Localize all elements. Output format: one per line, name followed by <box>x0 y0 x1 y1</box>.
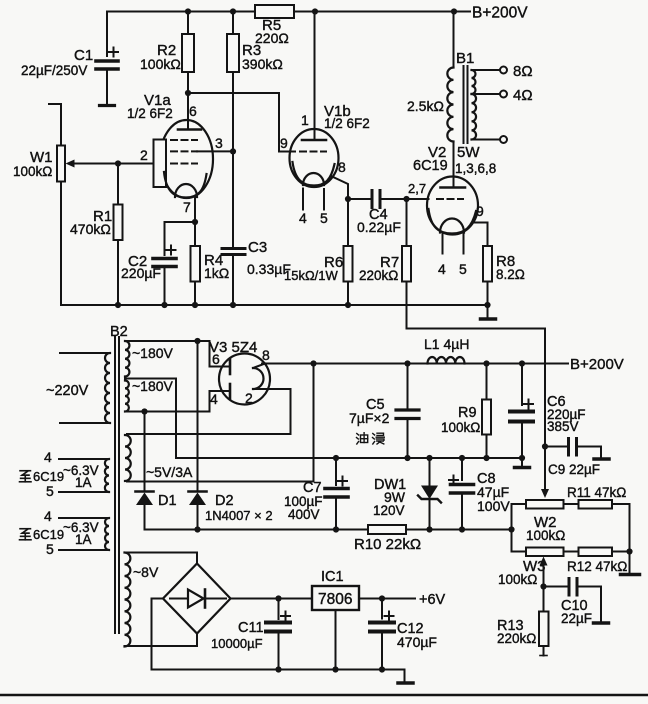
svg-text:7806: 7806 <box>318 591 352 608</box>
tube V2 envelope <box>427 177 478 235</box>
wire V1b cathode pin 8 lead <box>331 176 348 199</box>
label 5V winding <box>146 464 193 480</box>
svg-text:V3 5Z4: V3 5Z4 <box>209 339 257 356</box>
svg-text:15kΩ/1W: 15kΩ/1W <box>284 268 339 283</box>
svg-text:~180V: ~180V <box>132 378 174 394</box>
label 4-ohm <box>513 87 533 104</box>
transformer B2 HV winding 1 <box>125 341 129 376</box>
label 8-ohm <box>513 63 533 80</box>
svg-text:5: 5 <box>320 210 328 226</box>
node junction C4/R7/V2-grid <box>403 196 409 202</box>
capacitor C5 <box>396 364 419 459</box>
node junction C5/gnd-rail <box>404 455 410 461</box>
label zhi-6C19 (heater A) <box>20 469 65 484</box>
node junction C7/bias-rail <box>333 526 339 532</box>
node junction IC1-out/C12 <box>379 595 385 601</box>
wire HV center tap to ground rail <box>125 379 176 459</box>
node junction riser/B+ line <box>310 360 316 366</box>
svg-text:~8V: ~8V <box>133 564 159 580</box>
ground supply rail <box>515 458 530 468</box>
label R12 value <box>567 559 627 574</box>
svg-text:~5V/3A: ~5V/3A <box>146 464 193 480</box>
label R7 value <box>359 254 399 283</box>
label R9 value <box>441 405 480 435</box>
node junction C8/bias-rail <box>459 526 465 532</box>
label C2 value <box>121 253 161 281</box>
tube V1a envelope <box>160 120 213 198</box>
resistor R4 <box>191 222 201 305</box>
node junction R8/rail <box>484 302 490 308</box>
wire B+ to B1 primary <box>453 12 455 68</box>
inductor L1 <box>428 357 465 364</box>
wire HV top to V3 pin6 and D2 <box>125 341 230 367</box>
node junction IC1-gnd/0V <box>332 666 338 672</box>
label R10 value <box>354 536 421 553</box>
potentiometer W1 <box>49 104 65 305</box>
svg-text:4: 4 <box>44 508 52 524</box>
wire 4-ohm tap <box>472 91 508 98</box>
svg-text:C3: C3 <box>248 239 267 256</box>
svg-text:R12 47kΩ: R12 47kΩ <box>567 559 627 574</box>
label R13 value <box>497 618 536 646</box>
label C5 value <box>349 397 390 426</box>
svg-text:1: 1 <box>301 112 309 128</box>
svg-text:R9: R9 <box>458 405 477 421</box>
svg-text:220µF: 220µF <box>121 265 161 281</box>
node junction R11/R12 <box>626 548 632 554</box>
label D1 <box>158 493 177 509</box>
wire heater B pin 5 <box>59 549 109 551</box>
svg-text:8.2Ω: 8.2Ω <box>496 267 525 282</box>
wire 8V bottom to bridge <box>125 634 198 647</box>
svg-text:1/2 6F2: 1/2 6F2 <box>324 116 370 131</box>
svg-text:470µF: 470µF <box>397 634 437 650</box>
label pins 2,7 (V2) <box>408 181 426 196</box>
wire bottom 0V rail <box>152 669 405 671</box>
svg-text:D1: D1 <box>158 493 177 509</box>
resistor R2 <box>182 12 194 94</box>
capacitor C12 <box>370 599 394 670</box>
label W1 value <box>13 149 53 179</box>
wire V2 heater pin 5 <box>463 234 465 254</box>
node junction C11/0V <box>275 666 281 672</box>
capacitor C9 <box>545 439 601 456</box>
node junction C6/B+ <box>519 360 525 366</box>
ground bottom supply <box>398 670 413 684</box>
label youjin (oil immersed C5) <box>357 433 385 444</box>
node junction wiper/C10/R13 <box>540 583 546 589</box>
ground C10 <box>594 587 609 624</box>
label heater B value <box>63 520 99 547</box>
svg-text:470kΩ: 470kΩ <box>70 221 111 237</box>
label B1 power <box>457 144 480 161</box>
wire bridge plus to IC1 <box>231 598 313 600</box>
ground C9 <box>594 447 609 460</box>
capacitor C6 <box>510 364 533 459</box>
svg-text:2,7: 2,7 <box>408 181 426 196</box>
transformer B2 heater winding A <box>105 459 109 492</box>
potentiometer W2 <box>526 500 564 509</box>
resistor R10 <box>368 525 406 534</box>
wire IC1 output <box>359 598 415 600</box>
wire V3 pin 2 to 5V winding <box>127 389 291 434</box>
resistor R13 <box>539 587 549 656</box>
wire 8V top to bridge <box>125 553 198 564</box>
label +6V output <box>419 592 446 608</box>
label C8 value <box>477 471 510 514</box>
resistor R6 <box>344 199 353 305</box>
svg-text:6: 6 <box>189 103 197 119</box>
label pin 3 <box>215 135 223 151</box>
label pin 4 (heater A) <box>44 449 52 465</box>
transformer B2 primary 220V <box>105 353 110 423</box>
border bottom edge <box>0 694 648 697</box>
transformer B2 core <box>115 337 119 633</box>
tube V3 plate 1 <box>229 360 232 375</box>
svg-text:5: 5 <box>46 541 54 557</box>
ground top-section <box>481 305 496 319</box>
label pin 6 (V3) <box>212 351 220 367</box>
label R11 value <box>567 485 626 500</box>
svg-text:1/2 6F2: 1/2 6F2 <box>127 106 173 121</box>
diode D2 <box>189 341 207 530</box>
node junction C3/rail <box>230 302 236 308</box>
svg-text:B+200V: B+200V <box>570 356 624 373</box>
wire HV bottom to V3 pin4 and D1 <box>125 391 230 412</box>
transformer B2 heater winding B <box>105 518 109 550</box>
wire W3 left <box>512 551 527 553</box>
svg-text:0.22µF: 0.22µF <box>357 219 401 235</box>
zener diode DW1 <box>418 458 441 530</box>
node junction C7/gnd-rail <box>333 455 339 461</box>
label C4 value <box>357 207 401 235</box>
resistor R5 <box>255 5 294 18</box>
label C7 value <box>284 480 323 522</box>
wire V1a cathode lead pin 7 <box>194 198 196 223</box>
label R6 value <box>284 254 343 283</box>
transformer B1 core <box>464 66 468 143</box>
tube V1b plate <box>302 12 326 141</box>
tube V1a plate <box>178 93 201 130</box>
wire V3 pin 8 to B+ line <box>253 364 568 369</box>
tube V1b envelope <box>290 129 339 187</box>
tube V3 envelope <box>219 354 270 405</box>
label B1 primary value <box>407 98 444 114</box>
label R2 value <box>140 42 181 72</box>
wire V2 grid <box>407 198 429 200</box>
svg-text:8: 8 <box>338 159 346 175</box>
resistor R11 <box>579 500 613 509</box>
label pin 6 <box>189 103 197 119</box>
svg-text:22µF/250V: 22µF/250V <box>21 63 87 78</box>
node junction DW1/bias-rail <box>426 526 432 532</box>
svg-text:5: 5 <box>46 483 54 499</box>
node junction R4/rail <box>192 302 198 308</box>
svg-text:100kΩ: 100kΩ <box>441 420 480 435</box>
resistor R7 <box>402 199 411 329</box>
svg-text:400V: 400V <box>288 507 320 522</box>
label pin 4 (V2) <box>438 261 446 277</box>
wire R7 to bias network <box>407 329 546 447</box>
label B2 <box>110 324 128 340</box>
node junction R9/B+ <box>483 360 489 366</box>
node junction V1b-plate/top-rail <box>312 8 318 14</box>
label DW1 value <box>373 477 406 518</box>
node junction C5/B+ <box>404 360 410 366</box>
wire heater A pin 4 <box>59 458 109 460</box>
svg-text:8Ω: 8Ω <box>513 63 533 80</box>
svg-text:~220V: ~220V <box>46 383 89 399</box>
capacitor C2 <box>153 222 176 305</box>
label 220V <box>46 383 89 399</box>
tube V2 plate <box>441 142 466 188</box>
wire top-section ground rail <box>61 304 488 306</box>
label V1b <box>324 103 370 131</box>
node junction HVtop/D2 <box>194 338 200 344</box>
tube V1a grid side-contact box <box>154 140 167 188</box>
svg-text:L1 4µH: L1 4µH <box>424 336 469 352</box>
svg-text:1N4007 × 2: 1N4007 × 2 <box>205 508 273 523</box>
label 8V winding <box>133 564 159 580</box>
svg-text:100kΩ: 100kΩ <box>13 164 52 179</box>
diode D1 <box>136 412 154 530</box>
wire bridge minus to 0V rail <box>152 599 164 670</box>
transformer B2 5V winding <box>125 435 131 481</box>
svg-text:4: 4 <box>44 449 52 465</box>
label pin 9 (V1b) <box>280 135 288 151</box>
svg-text:D2: D2 <box>215 493 234 509</box>
svg-text:1A: 1A <box>75 475 92 490</box>
svg-text:6C19: 6C19 <box>33 527 64 542</box>
wire R12 right <box>612 551 630 553</box>
wire common tap <box>472 136 508 143</box>
label pin 5 (V1b) <box>320 210 328 226</box>
label C3 value <box>247 239 291 277</box>
svg-text:120V: 120V <box>373 503 405 518</box>
label C6 value <box>547 394 586 434</box>
svg-text:R11 47kΩ: R11 47kΩ <box>567 485 626 500</box>
node junction pin8/C4/R6 <box>345 196 351 202</box>
label 180V top <box>132 345 174 361</box>
wire W3 wiper <box>540 557 548 587</box>
node junction C2/rail <box>161 302 167 308</box>
label R5 value <box>255 17 289 46</box>
label 180V bottom <box>132 378 174 394</box>
wire grid V1a <box>118 163 154 165</box>
label C1 <box>21 47 93 78</box>
capacitor C3 <box>222 151 245 305</box>
node junction R1/rail <box>115 302 121 308</box>
node junction R9/gnd-rail <box>483 455 489 461</box>
wire V2 cathode pin 9 lead <box>472 223 488 247</box>
tube V1b cathode <box>293 162 335 186</box>
svg-text:2: 2 <box>140 147 148 163</box>
regulator IC1 <box>312 586 359 610</box>
wire pin 3 (screen grid out) <box>197 150 233 152</box>
transformer B1 primary <box>447 68 453 142</box>
svg-text:10000µF: 10000µF <box>211 636 263 651</box>
svg-text:7: 7 <box>183 199 191 215</box>
svg-text:9: 9 <box>476 203 484 219</box>
resistor R12 <box>579 548 613 557</box>
label V2 <box>413 144 448 174</box>
wire W2 to R11 <box>564 503 579 505</box>
label pin 5 (heater A) <box>46 483 54 499</box>
wire W3 to R12 <box>564 551 579 553</box>
resistor R1 <box>114 164 123 306</box>
svg-text:4: 4 <box>210 391 218 407</box>
ground bias divider <box>621 573 640 577</box>
node junction bias-rail/left-vertical <box>508 526 514 532</box>
label pin 8 (V3) <box>262 347 270 363</box>
svg-text:5W: 5W <box>457 144 480 161</box>
label pin 5 (heater B) <box>46 541 54 557</box>
transformer B2 HV winding 2 <box>125 381 129 412</box>
node junction B1/top-rail <box>451 8 457 14</box>
wire V1b heater pin 4 <box>302 189 304 210</box>
label pin 8 <box>338 159 346 175</box>
svg-text:100V: 100V <box>477 498 510 514</box>
wire W2-W3 left vertical <box>511 504 513 552</box>
label IC1 <box>321 569 344 585</box>
resistor R9 <box>482 364 491 459</box>
capacitor C7 <box>325 458 348 530</box>
wire supply ground rail <box>176 457 522 459</box>
svg-text:4: 4 <box>299 210 307 226</box>
svg-text:100kΩ: 100kΩ <box>140 56 181 72</box>
svg-text:B+200V: B+200V <box>472 5 528 22</box>
svg-text:8: 8 <box>262 347 270 363</box>
capacitor C8 <box>449 458 474 530</box>
svg-text:220kΩ: 220kΩ <box>497 631 536 646</box>
tube V1b grid dashes <box>300 151 326 153</box>
label C12 value <box>397 621 437 650</box>
svg-text:220kΩ: 220kΩ <box>359 268 398 283</box>
label W3 value <box>498 558 546 587</box>
svg-text:C9 22µF: C9 22µF <box>548 462 600 477</box>
label D2 <box>215 493 234 509</box>
wire heater A pin 5 <box>59 491 109 493</box>
wire W1 wiper arrow <box>66 160 119 168</box>
wire IC1 ground pin <box>335 610 337 670</box>
label C11 value <box>211 620 264 651</box>
wire 220V top lead <box>60 352 110 354</box>
node junction C12/0V <box>379 666 385 672</box>
svg-text:R10 22kΩ: R10 22kΩ <box>354 536 421 553</box>
node junction C9/bias-vertical <box>542 443 548 449</box>
svg-text:5: 5 <box>459 261 467 277</box>
label B1 <box>456 50 474 67</box>
label pin 9 (V2) <box>476 203 484 219</box>
label pin 4 (heater B) <box>44 508 52 524</box>
node junction DW1/gnd-rail <box>426 455 432 461</box>
capacitor C10 <box>544 579 602 596</box>
wire 220V bottom lead <box>60 422 110 424</box>
svg-text:C11: C11 <box>238 620 264 636</box>
label V1a <box>127 92 173 121</box>
svg-text:100kΩ: 100kΩ <box>526 528 565 543</box>
node junction R2/top-rail <box>185 8 191 14</box>
wire bias rail <box>145 529 512 531</box>
svg-text:22µF: 22µF <box>561 611 592 626</box>
svg-text:385V: 385V <box>547 419 579 434</box>
wire R11 right down <box>612 504 630 573</box>
wire bias vertical to W2 wiper <box>541 447 549 499</box>
node B+200V label (top) <box>472 5 528 22</box>
svg-text:6C19: 6C19 <box>33 469 64 484</box>
wire 5V bottom to B+ riser <box>127 364 314 482</box>
svg-text:~180V: ~180V <box>132 345 174 361</box>
label pin 2 <box>140 147 148 163</box>
tube V3 plate 2 <box>229 384 232 399</box>
potentiometer W3 <box>526 548 564 557</box>
label heater A value <box>63 463 99 490</box>
label R1 value <box>70 208 112 237</box>
node junction R6/rail <box>345 302 351 308</box>
capacitor C1 <box>96 12 118 105</box>
wire V1a-plate to V1b-grid <box>188 93 295 152</box>
label pin 7 <box>183 199 191 215</box>
transformer B2 8V winding <box>125 553 131 647</box>
label V3 <box>209 339 257 356</box>
label pins 1,3,6,8 <box>455 161 496 176</box>
bridge rectifier <box>163 564 231 634</box>
node junction V1a-plate/R2 <box>185 90 191 96</box>
wire V1b heater pin 5 <box>323 189 325 210</box>
capacitor C4 <box>348 191 407 208</box>
capacitor C11 <box>266 599 290 670</box>
node junction pin3/R3/C3 <box>230 148 236 154</box>
node junction bridge/C11 <box>275 595 281 601</box>
node junction HVbottom/D1 <box>141 408 147 414</box>
svg-text:4Ω: 4Ω <box>513 87 533 104</box>
ground C1 end-bar <box>100 104 115 107</box>
resistor R8 <box>483 246 492 305</box>
wire 8-ohm tap <box>472 67 508 74</box>
svg-text:1A: 1A <box>75 532 92 547</box>
tube V1a cathode <box>164 172 207 198</box>
label R4 value <box>204 252 229 281</box>
tube V2 cathode <box>429 209 477 234</box>
svg-text:6C19: 6C19 <box>413 158 448 174</box>
tube V2 grid dashes <box>437 198 463 200</box>
svg-text:IC1: IC1 <box>321 569 344 585</box>
label R3 value <box>242 42 283 72</box>
wire heater B pin 4 <box>59 517 109 519</box>
node junction R3/top-rail <box>230 8 236 14</box>
svg-text:C1: C1 <box>74 47 93 64</box>
wire V2 heater pin 4 <box>442 234 444 254</box>
wire cathode to C2 <box>165 221 196 223</box>
svg-text:1kΩ: 1kΩ <box>204 265 229 281</box>
svg-text:3: 3 <box>215 135 223 151</box>
svg-text:4: 4 <box>438 261 446 277</box>
resistor R3 <box>227 12 239 152</box>
svg-text:B1: B1 <box>456 50 474 67</box>
svg-text:100kΩ: 100kΩ <box>498 572 537 587</box>
node junction C8/gnd-rail <box>459 455 465 461</box>
node junction wiper/R1 <box>115 160 121 166</box>
label pin 4 (V3) <box>210 391 218 407</box>
svg-text:2.5kΩ: 2.5kΩ <box>407 98 444 114</box>
label pin 4 (V1b) <box>299 210 307 226</box>
svg-text:B2: B2 <box>110 324 128 340</box>
label pin 2 (V3) <box>245 390 253 406</box>
label C10 value <box>561 598 592 626</box>
svg-text:2: 2 <box>245 390 253 406</box>
svg-text:1,3,6,8: 1,3,6,8 <box>455 161 496 176</box>
label D1 D2 type <box>205 508 273 523</box>
